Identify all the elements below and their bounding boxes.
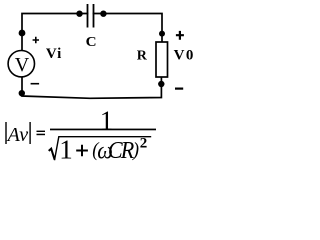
svg-text:R: R	[137, 48, 148, 63]
svg-text:2: 2	[140, 136, 148, 152]
svg-text:Vi: Vi	[46, 46, 62, 62]
svg-text:V0: V0	[174, 47, 195, 63]
svg-text:1: 1	[59, 135, 73, 165]
svg-text:): )	[132, 139, 139, 161]
svg-text:V: V	[15, 54, 30, 76]
svg-text:1: 1	[100, 106, 114, 136]
svg-text:Av: Av	[6, 124, 29, 146]
svg-text:C: C	[86, 34, 97, 49]
